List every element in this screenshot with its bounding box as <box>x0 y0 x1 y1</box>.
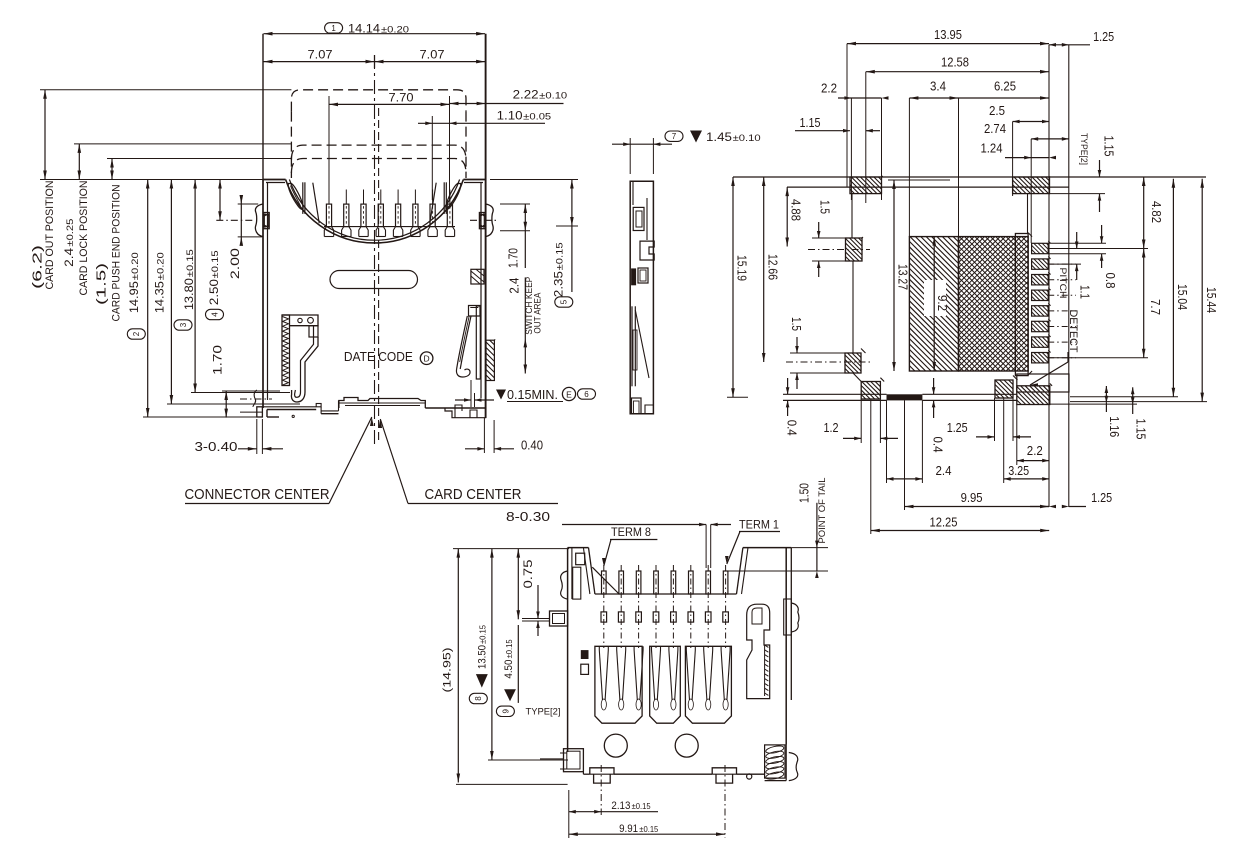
dim 7.7 <box>1143 249 1145 358</box>
svg-text:3.4: 3.4 <box>930 79 946 94</box>
svg-text:13.95: 13.95 <box>934 27 962 42</box>
view4 small circle <box>747 774 752 779</box>
svg-text:3: 3 <box>179 322 188 327</box>
svg-text:DETECT: DETECT <box>1067 310 1079 353</box>
view2 bottom feet <box>632 398 642 414</box>
svg-text:±0.15: ±0.15 <box>210 250 220 278</box>
view1 left latch serration <box>283 317 289 322</box>
svg-text:1.50: 1.50 <box>797 483 812 503</box>
dim (14.95) view4 <box>457 549 459 783</box>
dim 14.95 <box>147 180 149 418</box>
svg-text:±0.20: ±0.20 <box>381 24 409 34</box>
svg-text:2.5: 2.5 <box>989 103 1005 118</box>
view3 central hatch A <box>909 237 958 371</box>
view1 top-left corner guide flag <box>288 184 303 210</box>
svg-text:2.13: 2.13 <box>611 800 630 812</box>
svg-text:1.5: 1.5 <box>818 200 833 214</box>
dim 4.50 view4 <box>517 549 519 620</box>
svg-text:15.04: 15.04 <box>1175 284 1190 310</box>
view1 card outline dashed <box>291 90 466 112</box>
view4 right lower ear <box>789 753 798 781</box>
view1 left solder tab <box>263 213 269 229</box>
view3 pad connect lines <box>851 194 853 238</box>
svg-text:14.14: 14.14 <box>348 21 380 35</box>
view4 contact square pin3 <box>636 612 642 622</box>
svg-text:D: D <box>424 353 430 363</box>
svg-text:12.66: 12.66 <box>765 254 780 280</box>
view4 bottom right corner <box>785 745 787 781</box>
dim 1.10 <box>418 122 545 124</box>
view1 pin support ledge <box>324 226 455 228</box>
dim 12.66 <box>763 177 765 362</box>
view3 pad bottom-right 2 detect <box>1017 386 1050 405</box>
view3 pad top-right <box>1013 177 1050 194</box>
dim 1.45 side width <box>629 138 631 174</box>
view3 pad mid-left upper <box>846 238 863 261</box>
view1 top-right corner guide <box>443 182 445 214</box>
svg-text:0.8: 0.8 <box>1103 273 1118 289</box>
svg-text:OUT AREA: OUT AREA <box>533 293 543 334</box>
svg-text:13.80: 13.80 <box>182 278 196 310</box>
dim 2.4 switch keepout <box>524 277 526 373</box>
view4 small blocks left <box>581 650 589 659</box>
svg-text:2.4: 2.4 <box>507 278 522 294</box>
view3 top pattern line <box>733 176 1206 178</box>
view1 bottom small bump <box>316 404 321 407</box>
svg-text:(14.95): (14.95) <box>442 648 454 693</box>
svg-text:POINT OF TAIL: POINT OF TAIL <box>817 478 827 544</box>
svg-text:2: 2 <box>132 331 141 336</box>
dim 14.14 top <box>264 33 486 35</box>
svg-text:PITCH: PITCH <box>1058 268 1068 299</box>
dim 0.15MIN <box>496 390 506 400</box>
view3 pad top-left <box>850 177 882 194</box>
svg-text:0.40: 0.40 <box>521 438 543 453</box>
view3 pad bottom-left <box>861 382 880 400</box>
svg-text:1.2: 1.2 <box>824 420 839 435</box>
svg-text:1.25: 1.25 <box>1093 29 1114 44</box>
svg-text:1.70: 1.70 <box>506 248 521 268</box>
svg-text:2.00: 2.00 <box>228 248 242 279</box>
svg-text:±0.15: ±0.15 <box>555 242 565 270</box>
view2 upper detail <box>633 207 644 230</box>
svg-text:1.24: 1.24 <box>981 141 1003 156</box>
view3 pad bottom-right 1 <box>995 380 1013 398</box>
dim 0.4 left <box>787 378 789 394</box>
svg-text:2.4: 2.4 <box>936 463 952 478</box>
svg-text:CARD OUT POSITION: CARD OUT POSITION <box>44 180 56 289</box>
svg-text:15.19: 15.19 <box>735 255 750 281</box>
view4 contact group 1 <box>595 646 642 723</box>
view3 pad mid-left lower <box>845 353 861 373</box>
view1 center slot <box>330 271 418 289</box>
dim 1.15 right <box>1099 160 1101 177</box>
view4 lock lever <box>747 604 770 698</box>
svg-text:CARD CENTER: CARD CENTER <box>425 486 522 503</box>
dim 1.5 lower-left <box>796 337 798 353</box>
view1 card push end dashed line <box>291 159 466 174</box>
svg-text:1.45: 1.45 <box>706 130 732 144</box>
dim 13.95 <box>847 43 1049 45</box>
view1 bottom edge <box>262 406 316 408</box>
svg-text:7: 7 <box>672 132 677 141</box>
dim 4.82 <box>1143 177 1145 249</box>
svg-text:13.50: 13.50 <box>476 645 488 669</box>
dim (1.5) CARD PUSH END POSITION <box>111 159 113 180</box>
svg-text:±0.20: ±0.20 <box>156 252 166 280</box>
dim 2.22 <box>450 103 564 105</box>
view4 terminals <box>602 571 607 594</box>
view3 detect courtyard rect <box>1017 374 1069 392</box>
svg-text:6: 6 <box>584 390 589 399</box>
svg-text:1.70: 1.70 <box>211 345 225 375</box>
view3 pad ML centerline <box>808 249 870 251</box>
view3 dim 9.2 inside hatch <box>924 280 946 316</box>
view3 bottom pattern lines <box>783 393 887 395</box>
dim 2.50 <box>219 180 221 221</box>
svg-text:1.16: 1.16 <box>1107 416 1122 437</box>
svg-text:1.25: 1.25 <box>947 420 968 435</box>
dim 2.35 <box>571 180 573 293</box>
svg-text:9: 9 <box>501 709 510 714</box>
svg-text:CARD PUSH END POSITION: CARD PUSH END POSITION <box>111 184 123 321</box>
view4 contact square pin1 <box>601 612 607 622</box>
view1 switch contact block <box>471 269 484 284</box>
dim 1.70 right <box>524 204 526 268</box>
dim 2.74 <box>1031 138 1069 140</box>
view4 contact group 2 <box>650 646 681 723</box>
svg-text:2.2: 2.2 <box>1027 443 1043 458</box>
svg-text:9.91: 9.91 <box>619 823 638 835</box>
view4 coil spring <box>765 745 785 778</box>
dim 15.44 <box>1201 179 1203 402</box>
svg-text:2.4: 2.4 <box>62 248 76 267</box>
view3 right vertical ext lines <box>1048 45 1050 507</box>
svg-text:7.70: 7.70 <box>389 90 414 104</box>
svg-text:15.44: 15.44 <box>1204 287 1219 313</box>
svg-text:±0.05: ±0.05 <box>523 112 551 122</box>
svg-text:1.25: 1.25 <box>1091 490 1112 505</box>
view4 contact square pin6 <box>688 612 694 622</box>
view2 mid contacts <box>631 268 636 285</box>
svg-text:7.07: 7.07 <box>420 48 445 62</box>
view1 left latch spring <box>282 315 290 386</box>
svg-text:4.50: 4.50 <box>503 660 515 679</box>
svg-text:2.50: 2.50 <box>207 279 221 305</box>
view2 lower contact blade <box>631 306 633 386</box>
view4 right upper ear <box>791 603 799 632</box>
svg-text:3.25: 3.25 <box>1008 463 1029 478</box>
svg-text:7.07: 7.07 <box>308 48 333 62</box>
svg-text:7.7: 7.7 <box>1148 299 1163 315</box>
svg-text:±0.15: ±0.15 <box>505 639 514 659</box>
svg-text:(1.5): (1.5) <box>94 263 109 305</box>
view4 contact square pin2 <box>618 612 624 622</box>
svg-text:2.35: 2.35 <box>552 271 566 297</box>
dim 1.25 top-right <box>1049 44 1090 46</box>
view4 spring fingers <box>599 650 602 700</box>
svg-text:1.1: 1.1 <box>1078 285 1093 299</box>
svg-text:13.27: 13.27 <box>896 264 911 290</box>
dim 13.27 <box>893 180 895 371</box>
svg-text:1.5: 1.5 <box>789 317 804 331</box>
dim 7.07 7.07 <box>264 61 486 63</box>
view4 left ext lines <box>456 783 568 785</box>
svg-text:1.15: 1.15 <box>800 115 821 130</box>
svg-text:TERM 1: TERM 1 <box>739 519 779 531</box>
svg-text:0.4: 0.4 <box>784 420 799 436</box>
view4 contact square pin8 <box>723 612 729 622</box>
view4 contact group 3 <box>685 646 731 723</box>
svg-text:±0.20: ±0.20 <box>130 252 140 280</box>
view4 contact square pin7 <box>705 612 711 622</box>
view1 body outline <box>262 180 264 409</box>
svg-text:14.35: 14.35 <box>153 281 167 313</box>
svg-text:0.75: 0.75 <box>523 560 535 589</box>
dim 2.4 CARD LOCK POSITION <box>78 144 80 180</box>
dim 1.16 <box>1105 386 1107 403</box>
view1 card lock position dashed line <box>291 145 466 160</box>
view1 left mount ear <box>255 204 263 237</box>
view4 foot right <box>712 768 736 774</box>
view3 central hatch B crosshatch <box>959 237 1029 371</box>
view4 left side details <box>571 548 573 600</box>
svg-text:1.15: 1.15 <box>1102 136 1117 157</box>
svg-text:9.2: 9.2 <box>935 295 950 311</box>
dim 1.24 <box>1031 157 1049 159</box>
svg-text:4: 4 <box>210 312 219 317</box>
svg-text:1.15: 1.15 <box>1134 419 1149 440</box>
svg-text:2.2: 2.2 <box>821 81 837 96</box>
svg-text:±0.15: ±0.15 <box>185 249 195 277</box>
svg-text:5: 5 <box>560 299 569 304</box>
view4 circles <box>604 734 627 757</box>
svg-text:0.15MIN.: 0.15MIN. <box>507 387 558 402</box>
dim 1.5 upper-left <box>818 222 820 238</box>
view4 left upper ear <box>561 571 568 599</box>
svg-text:±0.10: ±0.10 <box>539 91 567 101</box>
dim 4.88 left <box>786 187 788 246</box>
svg-text:TYPE[2]: TYPE[2] <box>526 707 561 718</box>
svg-text:4.82: 4.82 <box>1149 201 1164 223</box>
view3 right pad column <box>1032 243 1049 253</box>
svg-text:±0.25: ±0.25 <box>65 219 75 247</box>
view4 bottom edge <box>582 772 584 775</box>
svg-text:14.95: 14.95 <box>127 281 141 313</box>
svg-text:9.95: 9.95 <box>961 490 983 505</box>
svg-text:8-0.30: 8-0.30 <box>506 509 550 524</box>
view4 foot left <box>590 768 614 774</box>
view4 contact square pin5 <box>671 612 677 622</box>
svg-text:6.25: 6.25 <box>994 79 1016 94</box>
svg-text:(6.2): (6.2) <box>30 245 45 289</box>
svg-text:E: E <box>566 389 572 399</box>
svg-text:CONNECTOR CENTER: CONNECTOR CENTER <box>185 486 330 503</box>
view1 switch keep-out hatched bar <box>486 340 494 380</box>
dim 3.4 <box>909 97 958 99</box>
dim 0.8 <box>1101 225 1103 243</box>
dim 13.80 <box>194 180 196 393</box>
view1 bottom left tab <box>257 407 263 417</box>
svg-text:±0.15: ±0.15 <box>632 802 652 811</box>
dim 6.25 <box>1040 96 1049 100</box>
view4 body outline <box>567 548 569 752</box>
view4 terminal top line ext <box>726 570 828 572</box>
dim 14.35 <box>170 180 172 405</box>
view2 side profile outline <box>630 181 653 413</box>
svg-text:0.4: 0.4 <box>931 437 946 453</box>
dim (6.2) CARD OUT POSITION <box>44 90 46 180</box>
view3 inner rect over hatch <box>1015 234 1028 376</box>
view1 right switch spring <box>476 306 480 379</box>
view2 card stop tab <box>640 241 654 260</box>
dim 2.2 top <box>838 97 882 99</box>
svg-text:8: 8 <box>474 696 483 701</box>
view1 centerline card <box>378 108 380 441</box>
dim 1.15 bottom-right <box>1132 387 1134 404</box>
svg-text:1: 1 <box>331 24 336 33</box>
svg-text:±0.15: ±0.15 <box>478 624 487 644</box>
view1 card cavity arc <box>286 180 464 243</box>
svg-text:TYPE[2]: TYPE[2] <box>1079 133 1089 165</box>
svg-text:1.10: 1.10 <box>497 109 523 123</box>
svg-text:3-0.40: 3-0.40 <box>195 439 238 454</box>
view1 right solder tab <box>479 213 485 229</box>
view1 right mount ear <box>486 204 494 237</box>
dim 1.1 pitch <box>1076 232 1078 249</box>
svg-text:2.22: 2.22 <box>513 88 539 102</box>
dim 0.4 right <box>933 378 935 394</box>
svg-text:±0.10: ±0.10 <box>733 133 761 143</box>
dim 12.58 <box>866 71 1049 73</box>
dim 7.70 <box>329 103 450 105</box>
view4 left solder tab <box>550 611 568 626</box>
view4 bottom-left bracket foot <box>564 749 584 772</box>
view3 black tail pad <box>887 394 923 400</box>
view1 bottom right step <box>445 408 486 418</box>
svg-text:2.74: 2.74 <box>984 121 1006 136</box>
dim 13.50 view4 <box>491 549 493 760</box>
svg-text:TERM 8: TERM 8 <box>611 527 651 539</box>
dim 2.00 <box>240 198 242 243</box>
view1 centerline connector <box>374 55 376 447</box>
dim 15.04 <box>1172 179 1174 397</box>
svg-text:12.25: 12.25 <box>930 515 958 530</box>
dim 2.5 <box>1013 121 1049 123</box>
view4 lock lever serration <box>765 645 769 647</box>
svg-text:±0.15: ±0.15 <box>639 825 659 834</box>
view4 hood slopes <box>589 548 595 594</box>
view4 contact square pin4 <box>653 612 659 622</box>
svg-text:CARD LOCK POSITION: CARD LOCK POSITION <box>78 180 90 295</box>
dim 15.19 <box>732 177 734 397</box>
svg-text:4.88: 4.88 <box>789 199 804 221</box>
svg-text:12.58: 12.58 <box>941 55 969 70</box>
dim 1.70 left <box>225 391 227 418</box>
